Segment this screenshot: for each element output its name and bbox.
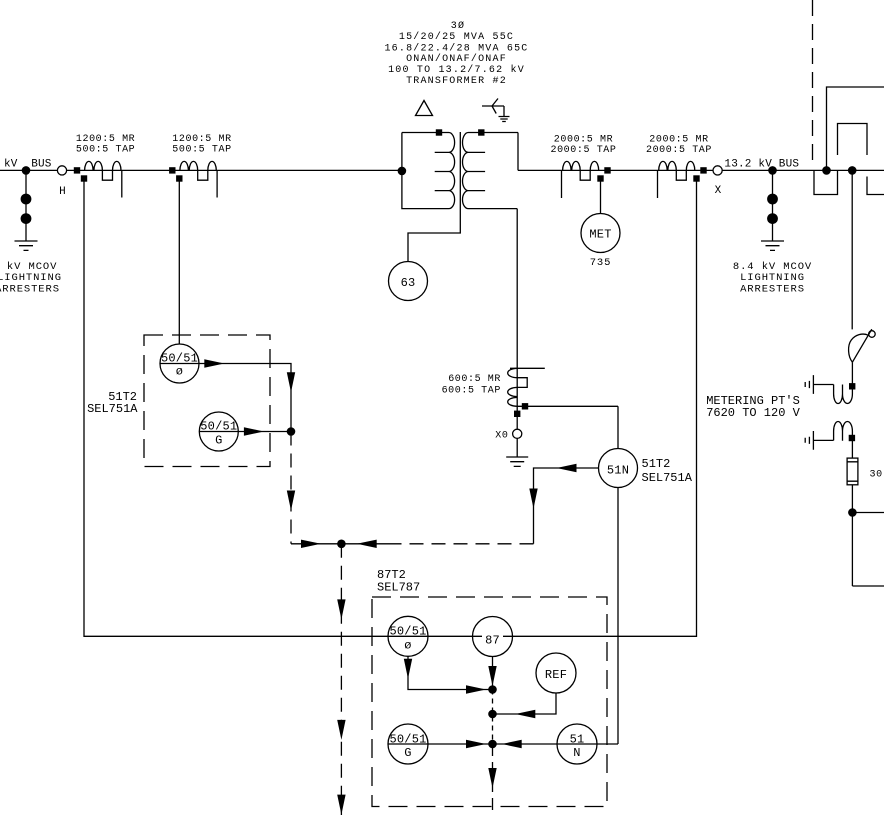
svg-text:SEL751A: SEL751A	[87, 402, 138, 416]
wire: secondary top lead to 13.2 kV bus	[517, 133, 519, 171]
svg-text:500:5 TAP: 500:5 TAP	[172, 145, 231, 156]
CT1: 1200:5 MR 500:5 TAP polarity square on bus	[74, 167, 80, 173]
transformer T2 primary winding (delta, H side)	[402, 133, 455, 209]
relay 87 differential SEL787	[473, 617, 513, 657]
svg-text:7620 TO 120 V: 7620 TO 120 V	[706, 406, 800, 420]
svg-text:ONAN/ONAF/ONAF: ONAN/ONAF/ONAF	[406, 53, 507, 65]
relay 50/51 phase SEL787	[388, 616, 428, 656]
arrow: trip down	[287, 491, 295, 511]
node: 87 trip junction 3	[488, 740, 497, 749]
transformer T2 primary polarity square	[436, 129, 442, 135]
CT3: polarity square on bus	[604, 167, 610, 173]
relay 51N SEL751A	[599, 449, 638, 488]
PT2: metering PT winding	[834, 421, 853, 440]
svg-text:50/51: 50/51	[389, 732, 426, 746]
trip wire: dashed down from junction	[290, 432, 292, 544]
svg-text:2000:5 MR: 2000:5 MR	[649, 135, 708, 146]
trip wire: 50/51G to node	[388, 743, 618, 745]
wire: fused PT output	[851, 485, 853, 513]
svg-text:735: 735	[590, 257, 612, 269]
node: 51T2 trip junction	[287, 427, 296, 436]
svg-text:600:5 MR: 600:5 MR	[448, 374, 501, 385]
arrow: 51N trip left into node	[502, 740, 522, 748]
ground: H-side arrester ground	[15, 241, 38, 250]
arrow: 87 trip down	[488, 666, 496, 686]
lightning arrester stack (8.4 kV MCOV)	[767, 194, 778, 205]
svg-text:LIGHTNING: LIGHTNING	[740, 272, 805, 284]
svg-text:MET: MET	[589, 228, 611, 242]
trip wire: 87-box 50/51 phase down and right	[408, 656, 493, 689]
trip wire: 50/51 ground to junction	[238, 431, 291, 433]
relay 50/51 phase SEL751A	[160, 344, 199, 383]
wire: 51N input from neutral CT and series to 87 box	[617, 406, 619, 744]
wire: transformer core/tank lead to device 63	[408, 132, 460, 262]
trip wire: corner to main trip node	[291, 543, 341, 545]
wire: neutral CT secondary to 51N	[517, 405, 618, 407]
trip wire: dashed tie between junctions	[492, 690, 494, 745]
svg-text:N: N	[573, 746, 580, 760]
CT2: coil 1200:5 MR 500:5 TAP	[180, 161, 217, 197]
node: feeder riser junction	[822, 166, 831, 175]
wire: PT2 neutral to ground	[814, 439, 834, 441]
svg-text:51N: 51N	[607, 464, 629, 478]
wire: PT riser above disconnect blade	[851, 170, 853, 329]
node: H-side arrester tap junction	[22, 166, 31, 175]
trip wire: 87 box output down (dashed)	[492, 744, 494, 815]
svg-text:2000:5 TAP: 2000:5 TAP	[646, 145, 712, 156]
ground: transformer neutral ground	[506, 457, 528, 466]
node: metering PT tap junction	[848, 166, 857, 175]
CT3: secondary lead square	[597, 175, 603, 181]
CT3: 2000:5 MR 2000:5 TAP tail	[561, 170, 563, 198]
PT1: metering PT winding	[834, 385, 853, 404]
node: PT secondary branch junction	[848, 508, 857, 517]
arrow: 51N trip left	[557, 464, 577, 472]
CT1: coil 1200:5 MR 500:5 TAP	[85, 161, 122, 197]
arrow: 51N trip down	[529, 489, 537, 509]
svg-text:ø: ø	[176, 365, 183, 379]
wire: CT2 secondary lead to 50/51 phase relay	[178, 179, 180, 345]
arrow: trip down to junction	[287, 372, 295, 392]
wire: feeder loop above bus	[838, 124, 868, 156]
svg-text:30: 30	[870, 470, 883, 481]
svg-text:X0: X0	[495, 431, 508, 442]
relay box 51T2 SEL751A (dashed)	[144, 335, 270, 467]
CT4: polarity square on bus	[700, 167, 706, 173]
svg-text:REF: REF	[545, 668, 567, 682]
CT5: polarity square on neutral lead	[514, 411, 520, 417]
svg-text:87: 87	[485, 634, 500, 648]
arrow: 51N trip left into node	[357, 540, 377, 548]
PT2: primary polarity square	[849, 435, 855, 441]
wire: CT3 secondary lead to metering	[600, 179, 602, 214]
wire: PT secondary branch right lower	[852, 585, 884, 587]
wire: feeder loop below bus	[814, 170, 838, 194]
wire: feeder drop lower right	[867, 177, 884, 195]
wye grounded winding symbol	[482, 99, 504, 117]
arrow: 50/51 phase down	[404, 659, 412, 679]
svg-text:63: 63	[401, 276, 416, 290]
ground: PT2 ground	[805, 431, 813, 450]
wire: CT1 secondary down + 87 CT bus horizontal + CT4 secondary down	[84, 179, 697, 637]
wire: H-side arrester drop	[25, 170, 27, 241]
svg-text:SEL751A: SEL751A	[642, 471, 693, 485]
text mask for 87	[482, 632, 503, 645]
svg-text:1200:5 MR: 1200:5 MR	[172, 134, 231, 145]
svg-text:50/51: 50/51	[161, 352, 198, 366]
CT2: secondary lead square	[176, 175, 182, 181]
wire: feeder riser to top right	[827, 87, 884, 170]
svg-text:G: G	[215, 434, 222, 448]
CT5: secondary lead square	[522, 403, 528, 409]
svg-text:ø: ø	[404, 639, 411, 653]
relay 50/51 ground SEL751A	[199, 412, 238, 451]
arrow: trip right into node	[301, 540, 321, 548]
node: master trip junction	[337, 540, 346, 549]
trip wire: 50/51 phase to corner	[199, 364, 291, 432]
wire: H-side main bus	[0, 169, 402, 171]
arrow: trip down 2	[337, 720, 345, 740]
node: 87 trip junction 1	[488, 685, 497, 694]
svg-text:3Ø: 3Ø	[451, 20, 465, 32]
trip wire: 51N path dashed toward master node	[390, 543, 534, 545]
CT4: coil 2000:5 MR 2000:5 TAP	[659, 161, 695, 180]
svg-text:16.8/22.4/28 MVA 65C: 16.8/22.4/28 MVA 65C	[384, 43, 528, 55]
lightning arrester stack (H side)	[21, 194, 32, 205]
transformer T2 secondary winding (wye, X side)	[462, 133, 518, 209]
arrow: output down	[488, 768, 496, 788]
relay 51N SEL787	[557, 724, 597, 764]
wire: PT secondary down	[851, 513, 853, 587]
node X: future breaker position circle	[713, 166, 722, 175]
CT4: 2000:5 MR 2000:5 TAP tail	[657, 170, 659, 198]
disconnect blade arc	[849, 334, 869, 362]
svg-text:100 TO 13.2/7.62 kV: 100 TO 13.2/7.62 kV	[388, 64, 525, 76]
device 63: sudden pressure relay	[389, 262, 428, 301]
trip wire: 87 down to node	[492, 657, 494, 690]
node: bus to transformer primary junction	[398, 167, 407, 176]
wire: secondary neutral lead down to neutral CT and ground	[516, 209, 518, 457]
trip wire: REF to node	[493, 693, 557, 714]
svg-text:500:5 TAP: 500:5 TAP	[76, 145, 135, 156]
ground: wye neutral ground	[499, 117, 510, 122]
node: 13.2 kV arrester tap junction	[768, 166, 777, 175]
CT3: coil 2000:5 MR 2000:5 TAP	[563, 161, 599, 180]
svg-text:TRANSFORMER #2: TRANSFORMER #2	[406, 76, 507, 87]
trip wire: 51N to left	[534, 468, 599, 544]
relay REF SEL787	[536, 653, 576, 693]
svg-text:LIGHTNING: LIGHTNING	[0, 272, 62, 284]
trip wire: master trip bus down (dashed)	[340, 544, 342, 815]
device MET: metering	[581, 214, 620, 253]
svg-text:SEL787: SEL787	[377, 581, 420, 595]
svg-text:1200:5 MR: 1200:5 MR	[76, 134, 135, 145]
svg-text:50/51: 50/51	[200, 420, 237, 434]
disconnect blade (open) for metering PTs	[852, 329, 871, 362]
arrow: 50/51 phase trip right	[204, 359, 224, 367]
node H: future breaker position circle	[57, 166, 66, 175]
wire: PT primary lead	[851, 362, 853, 394]
node X0: neutral bushing circle	[513, 429, 522, 438]
arrow: REF trip left	[515, 710, 535, 718]
ground: 13.2 kV arrester ground	[761, 241, 784, 250]
svg-text:G: G	[404, 746, 411, 760]
wire: PT secondary branch right upper	[852, 512, 884, 514]
node: 87 trip junction 2	[488, 710, 497, 719]
fuse: metering PT fuse	[847, 458, 858, 485]
svg-text:51T2: 51T2	[642, 457, 671, 471]
CT2: 1200:5 MR 500:5 TAP polarity square on bus	[169, 167, 175, 173]
CT1: secondary lead square	[81, 175, 87, 181]
svg-text:H: H	[59, 186, 66, 198]
svg-text:50/51: 50/51	[389, 625, 426, 639]
wire: 13.2 kV bus	[518, 169, 884, 171]
PT1: primary polarity square	[849, 383, 855, 389]
relay box 87T2 SEL787 (dashed)	[372, 597, 607, 807]
svg-text:15/20/25 MVA 55C: 15/20/25 MVA 55C	[399, 31, 514, 43]
svg-text:ARRESTERS: ARRESTERS	[740, 284, 805, 296]
wire: PT1 neutral to ground	[814, 384, 834, 386]
arrow: trip down 1	[337, 599, 345, 619]
wire: feeder bay dashed tie	[812, 0, 814, 164]
arrow: 50/51G trip right	[466, 740, 486, 748]
relay 50/51 ground SEL787	[388, 724, 428, 764]
CT4: secondary lead square	[693, 175, 699, 181]
arrow: trip down 3	[337, 795, 345, 815]
ground: PT1 ground	[805, 375, 813, 394]
svg-text:kV BUS: kV BUS	[4, 159, 52, 171]
svg-text:2000:5 TAP: 2000:5 TAP	[550, 145, 616, 156]
wire: PT fuse lead	[851, 441, 853, 458]
arrow: 50/51 ground trip right	[244, 427, 264, 435]
delta winding symbol	[416, 101, 433, 116]
svg-text:13.2 kV BUS: 13.2 kV BUS	[724, 159, 799, 171]
svg-text:2000:5 MR: 2000:5 MR	[554, 135, 613, 146]
CT5: 600:5 MR 600:5 TAP neutral CT tail	[510, 367, 545, 369]
arrow: right into node	[466, 685, 486, 693]
CT5: coil 600:5 MR 600:5 TAP	[508, 368, 528, 406]
wire: 13.2 kV arrester drop	[772, 170, 774, 241]
svg-text:ARRESTERS: ARRESTERS	[0, 284, 60, 296]
svg-text:X: X	[715, 185, 722, 197]
svg-text:600:5 TAP: 600:5 TAP	[442, 386, 501, 397]
transformer T2 secondary polarity square	[478, 129, 484, 135]
svg-text:51: 51	[570, 732, 585, 746]
